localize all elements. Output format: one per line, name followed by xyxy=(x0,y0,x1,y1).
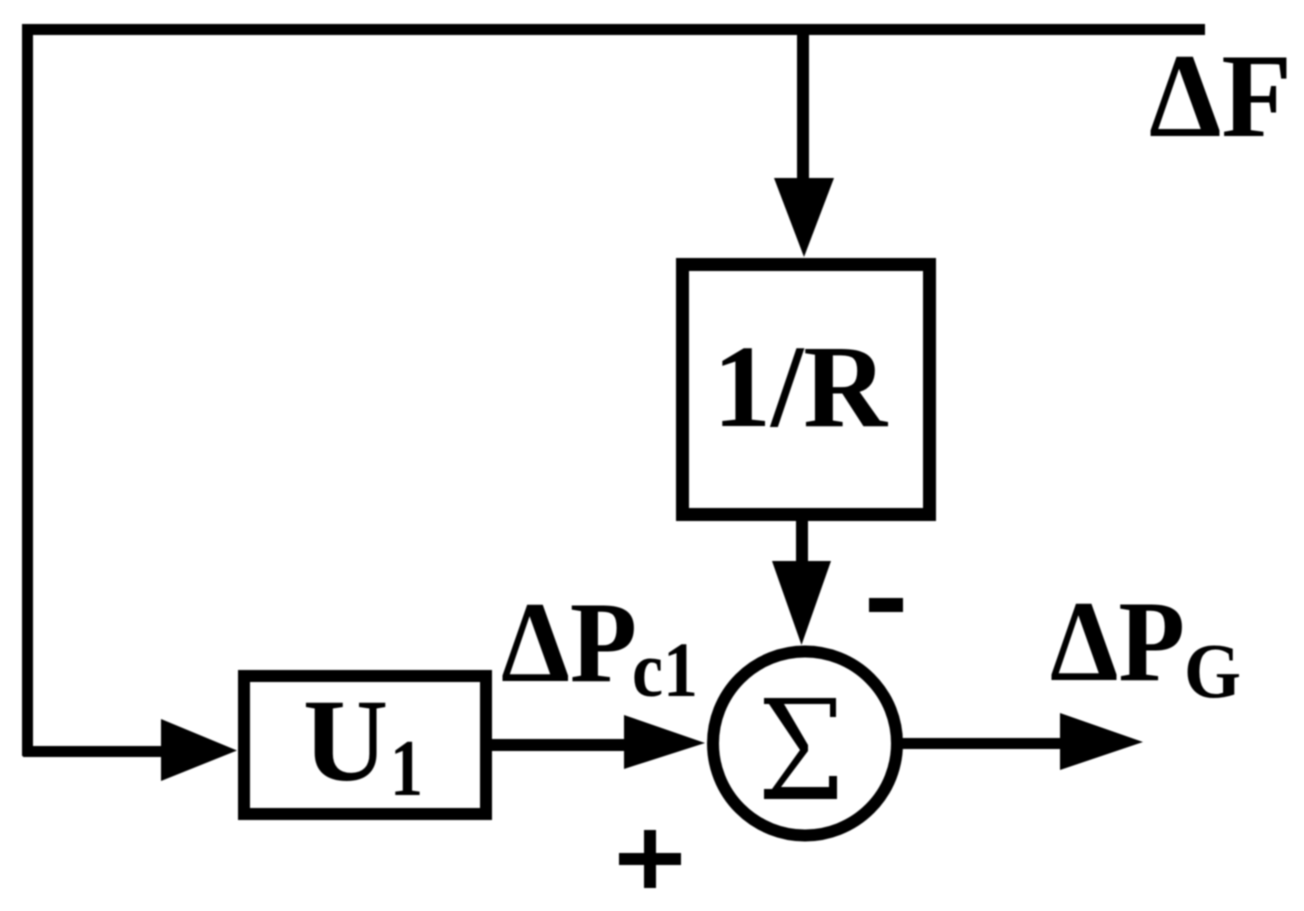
wire: top horizontal feedback line xyxy=(22,24,1205,35)
block 1/R box xyxy=(683,265,930,515)
wire: U1 to summer xyxy=(492,739,624,751)
wire: summer output xyxy=(899,738,1060,749)
wire: 1/R box to summer arrow xyxy=(796,514,808,566)
svg-text:c1: c1 xyxy=(632,626,698,713)
svg-text:G: G xyxy=(1184,627,1241,714)
plus sign xyxy=(619,853,681,865)
label sigma xyxy=(764,698,837,799)
wire: bottom feedback segment into U1 xyxy=(23,746,162,757)
summer circle xyxy=(713,652,897,836)
svg-text:1: 1 xyxy=(390,725,423,813)
wire: left vertical feedback line xyxy=(22,24,33,756)
output arrowhead xyxy=(1060,713,1143,770)
arrowhead into summer (from U1) xyxy=(624,715,705,769)
minus sign xyxy=(869,598,903,612)
svg-text:ΔF: ΔF xyxy=(1149,29,1292,162)
arrowhead into 1/R xyxy=(774,178,834,257)
arrowhead into U1 xyxy=(161,719,237,781)
arrowhead into summer (from 1/R) xyxy=(772,561,831,645)
svg-text:U: U xyxy=(303,675,388,806)
wire: vertical branch from top line down to 1/R xyxy=(797,35,809,183)
svg-text:1/R: 1/R xyxy=(713,321,889,452)
block U1 box xyxy=(244,676,486,814)
svg-text:ΔP: ΔP xyxy=(501,579,637,707)
svg-text:ΔP: ΔP xyxy=(1050,578,1185,706)
